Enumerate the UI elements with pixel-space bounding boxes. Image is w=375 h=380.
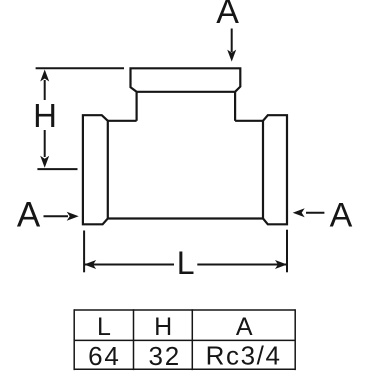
H arrowhead down: [40, 156, 49, 168]
H arrowhead up: [40, 70, 49, 82]
table vertical rules: [74, 309, 295, 370]
right A section arrow shaft: [306, 212, 324, 214]
svg-text:A: A: [236, 313, 253, 341]
L right extension line: [286, 230, 288, 273]
top A arrowhead down: [227, 50, 236, 62]
body bottom edge: [108, 217, 263, 219]
L dimension line right segment: [197, 264, 287, 266]
branch neck left edge: [136, 92, 138, 121]
left A section arrow shaft: [44, 215, 69, 217]
svg-text:Rc3/4: Rc3/4: [206, 341, 282, 371]
L dimension line left segment: [84, 264, 174, 266]
svg-text:A: A: [330, 197, 353, 235]
H dimension arrow shaft lower: [44, 130, 46, 157]
H bottom extension line (body centerline): [37, 168, 77, 170]
left A arrowhead right: [67, 212, 79, 221]
top A section arrow shaft: [231, 29, 233, 53]
table outer border and rules: [74, 310, 295, 369]
svg-text:A: A: [17, 196, 41, 235]
top socket outline: [131, 68, 241, 92]
svg-text:L: L: [177, 245, 195, 281]
L arrowhead left: [84, 260, 96, 269]
svg-text:64: 64: [88, 341, 121, 371]
L left extension line: [83, 231, 85, 273]
H dimension arrow shaft upper: [44, 80, 46, 100]
branch neck right edge: [234, 92, 236, 121]
L arrowhead right: [275, 260, 287, 269]
body top edge right segment: [235, 120, 263, 122]
svg-text:H: H: [33, 97, 57, 134]
body top edge left segment: [108, 120, 137, 122]
svg-text:L: L: [97, 313, 111, 341]
svg-text:A: A: [216, 0, 239, 31]
right A arrowhead left: [293, 208, 305, 217]
svg-text:32: 32: [149, 341, 182, 371]
svg-text:H: H: [154, 313, 172, 341]
H top extension line: [36, 67, 124, 69]
right socket outline: [263, 115, 287, 224]
left socket outline: [83, 115, 108, 224]
